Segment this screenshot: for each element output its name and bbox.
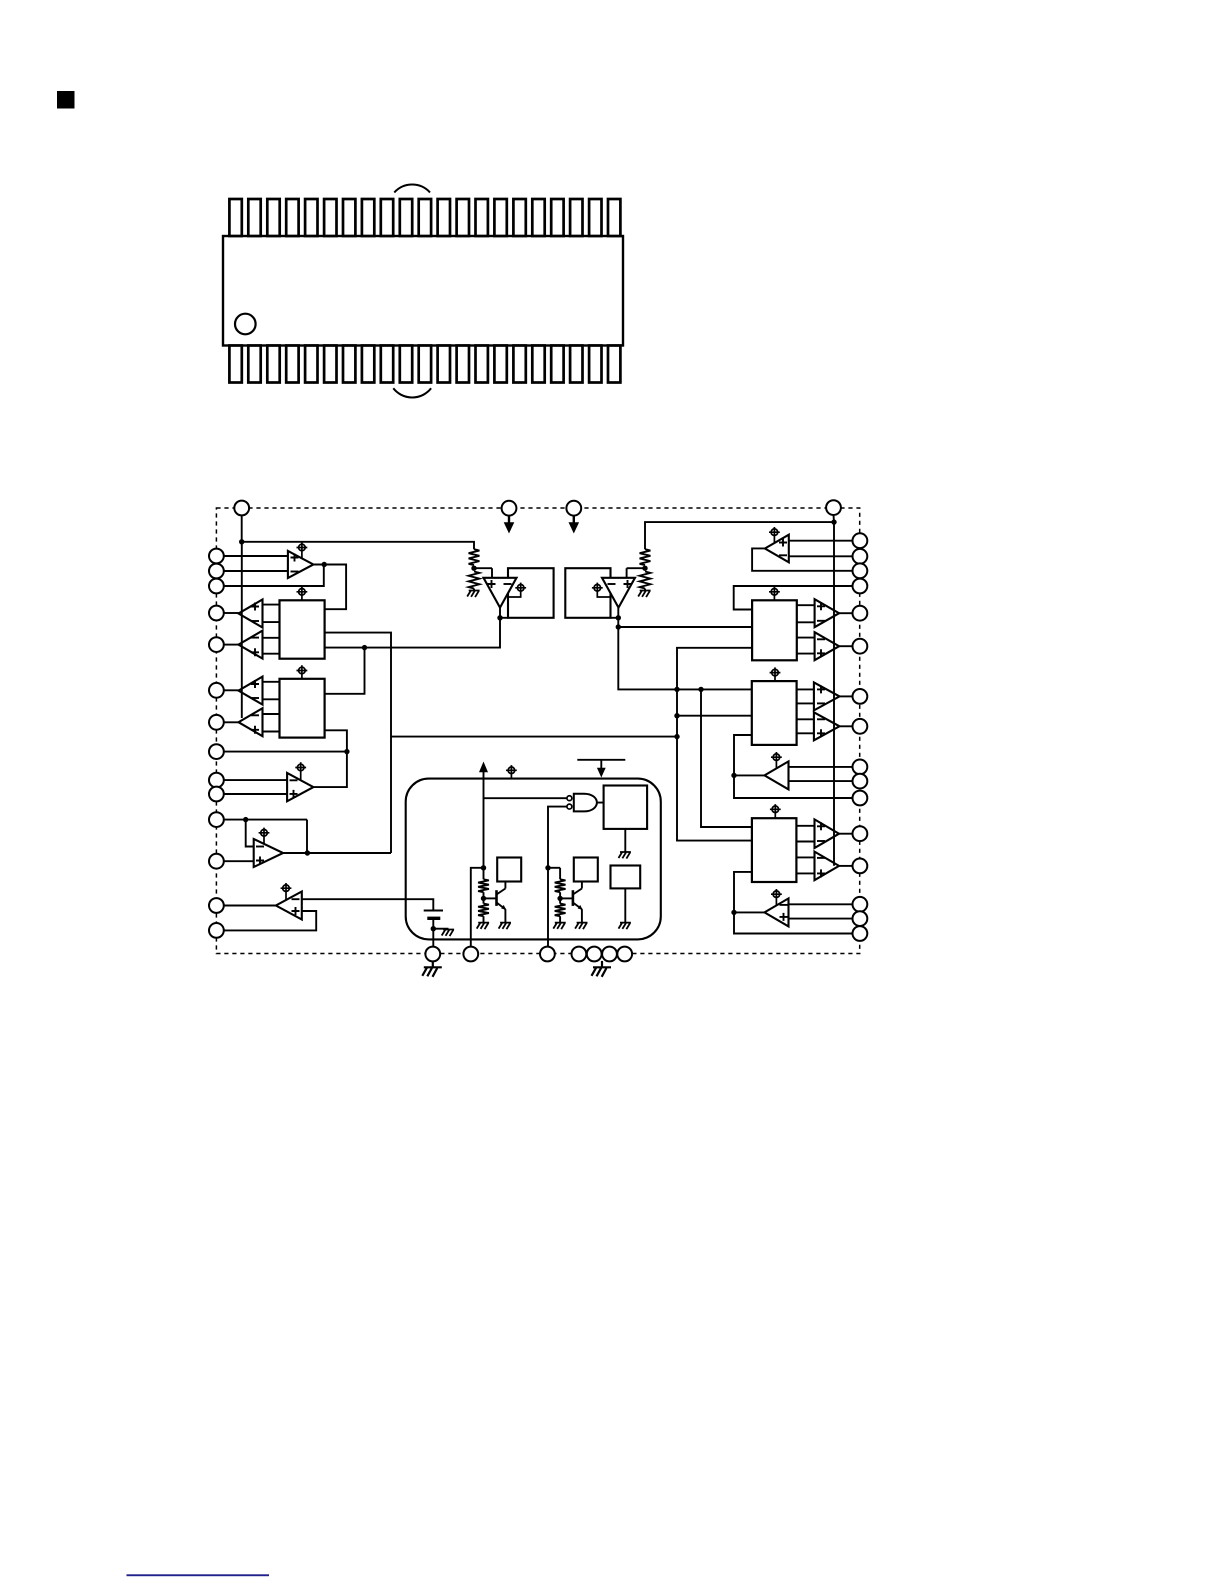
A1 polarity <box>817 602 825 610</box>
stub R2-A4 lower <box>797 732 814 734</box>
wire pin L12 to U5+ <box>224 860 254 862</box>
wire node-A cross link <box>391 736 677 738</box>
NAND input bubble 2 <box>567 804 572 809</box>
wire to left divider <box>242 542 474 549</box>
op-amp U11 (right bottom amp) <box>765 898 789 926</box>
stub U8- input <box>610 568 612 578</box>
junction L1 input <box>362 645 367 650</box>
logic block F1 <box>604 786 648 829</box>
ground D3 <box>624 888 626 922</box>
wire U7 rect tie <box>500 617 508 619</box>
junction U8 out-1 <box>616 615 621 620</box>
wire A6 output <box>839 865 853 867</box>
wire L2 to U4 output loop <box>313 730 347 787</box>
junction U5 out <box>305 850 310 855</box>
wire A5 output <box>839 833 853 835</box>
wire arrow pin V1 <box>508 516 510 524</box>
ground pin cluster <box>601 961 603 967</box>
U7 polarity <box>488 580 496 588</box>
stub R3-A5 upper <box>796 825 814 827</box>
junction node-B/737 <box>674 734 679 739</box>
wire L1 to node-A vertical <box>325 633 391 853</box>
op-amp U9 (right top amp) <box>765 535 789 563</box>
junction base Q2 <box>557 896 562 901</box>
wire pin L13 to U6 <box>224 905 276 907</box>
wire pin L6 to U3a <box>224 689 239 691</box>
resistor RB2a <box>559 868 561 880</box>
stub U3b-L2 upper <box>263 713 280 715</box>
schematic boundary (dashed) <box>216 508 859 954</box>
bias tap U4 <box>295 762 306 779</box>
block D1 <box>497 858 521 882</box>
wire node-C vertical <box>701 689 752 827</box>
stub R1-A1 upper <box>797 604 815 606</box>
block R3 <box>752 818 797 882</box>
ground RB1 <box>483 916 485 922</box>
stub U7+ input <box>491 568 493 578</box>
oscillator block (rounded) <box>406 779 661 940</box>
wire pin L5 to U2b <box>224 644 239 646</box>
wire U10 out to R2 <box>734 735 752 775</box>
wire NAND bottom input <box>548 807 567 947</box>
capacitor C1 top plate <box>424 910 443 912</box>
ground right divider <box>644 589 646 591</box>
comparator U2b <box>239 631 263 659</box>
wire U10 output <box>734 774 765 776</box>
op-amp U7 (center-left amp) <box>484 578 517 608</box>
bias tap R2 <box>770 667 781 681</box>
arrowhead V2 <box>569 522 580 533</box>
junction osc chain 2 <box>545 865 550 870</box>
bias tap L1 <box>297 587 308 601</box>
bias tap R3 <box>770 804 781 818</box>
wire U6+ to pin L14 <box>224 911 316 930</box>
U2a polarity <box>251 603 259 611</box>
junction U1 output <box>322 562 327 567</box>
wire U5 feedback left <box>246 820 254 847</box>
frame U8 <box>565 568 610 618</box>
bias tap U11 <box>771 889 782 905</box>
pin V1 (top) <box>502 501 517 516</box>
section marker square <box>57 91 75 109</box>
op-amp U8 (center-right amp) <box>602 578 635 608</box>
wire Q2 collector <box>581 882 583 889</box>
wire top-left pin stem <box>241 515 243 541</box>
ground Q2 emitter <box>581 909 583 922</box>
wire pin L11 <box>224 819 307 821</box>
IC package body <box>223 236 623 346</box>
stub U2b-L1 lower <box>263 653 280 655</box>
A6 polarity <box>817 857 825 859</box>
comparator U3a <box>239 677 263 705</box>
junction top-right <box>831 519 836 524</box>
ground left divider <box>473 589 475 591</box>
transistor Q1 <box>484 897 497 899</box>
wire to right divider <box>645 522 834 549</box>
enable up-arrow <box>483 772 485 868</box>
stub R2-A3 lower <box>797 702 814 704</box>
wire U6- to cap <box>302 899 434 910</box>
block L1 <box>280 600 325 658</box>
inhibit bar <box>577 759 625 761</box>
stub R3-A5 lower <box>796 841 814 843</box>
wire cap ground branch <box>433 928 448 930</box>
stub U3b-L2 lower <box>263 731 280 733</box>
stub U2b-L1 upper <box>263 637 280 639</box>
junction left divider <box>471 566 476 571</box>
wire right top pin stem <box>833 515 836 522</box>
U2b polarity <box>251 637 259 639</box>
bias tap osc <box>506 765 517 779</box>
arrowhead V1 <box>504 522 515 533</box>
resistor RB1b <box>483 898 485 903</box>
IC bottom pin row (pins 1-21) <box>229 346 620 383</box>
wire NAND output <box>597 802 604 804</box>
wire pin R2 to U9- <box>789 555 853 557</box>
A4 polarity <box>817 718 825 720</box>
op-amp U5 (left lower amp) <box>254 839 283 867</box>
IC bottom notch arc <box>393 388 431 397</box>
wire U8 out to R1 <box>618 626 752 628</box>
bias tap U8 <box>597 591 609 597</box>
wire node-B to R2 <box>677 715 752 717</box>
wire U1 output <box>313 565 346 610</box>
junction U8 out-2 <box>616 624 621 629</box>
inhibit down-arrow <box>600 760 602 769</box>
bias tap U1 <box>297 542 308 558</box>
wire pin R15 to U11+ <box>789 918 853 920</box>
NAND gate G1 <box>574 794 597 812</box>
wire pin R10 to U10+ <box>789 780 853 782</box>
bias tap U6 <box>281 883 292 900</box>
stub U2a-L1 lower <box>263 621 280 623</box>
A2 polarity <box>817 638 825 640</box>
capacitor C1 bottom plate <box>427 917 440 920</box>
bias tap U9 <box>769 527 780 543</box>
block D2 <box>574 858 598 882</box>
driver A5 (R3 upper) <box>815 819 840 848</box>
junction node-B/689 <box>674 687 679 692</box>
bias tap U5 <box>259 828 270 844</box>
stub R3-A6 lower <box>796 872 814 874</box>
wire pin R1 to U9+ <box>789 540 853 542</box>
wire cap to pin B1 <box>432 918 434 946</box>
wire pin L7 to U3b <box>224 721 239 723</box>
wire U7 output to L1 <box>325 608 500 648</box>
stub R3-A6 upper <box>796 856 814 858</box>
stub R1-A2 lower <box>797 653 815 655</box>
U4 polarity <box>290 779 298 781</box>
wire U11 output <box>734 911 765 913</box>
op-amp U10 (right mid amp) <box>765 761 789 789</box>
junction right divider <box>642 566 647 571</box>
stub U3a-L2 upper <box>263 681 280 683</box>
wire U5 feedback right <box>306 820 308 853</box>
junction pin L11 <box>243 817 248 822</box>
wire arrow pin V2 <box>573 516 575 524</box>
U8 polarity <box>608 583 616 585</box>
U6 polarity <box>292 898 300 900</box>
wire NAND top input <box>484 797 567 799</box>
wire U8 rect tie <box>611 617 619 619</box>
pin top-right <box>826 500 841 515</box>
pin top-left <box>234 501 249 516</box>
stub R2-A4 upper <box>797 718 814 720</box>
block D3 <box>611 866 641 889</box>
resistor RB1a <box>483 868 485 880</box>
block R2 <box>752 681 797 745</box>
stub U7- input <box>507 568 509 578</box>
wire pin R4 to R1 input <box>734 586 853 610</box>
NAND input bubble 1 <box>567 796 572 801</box>
wire divider to U7+ <box>474 567 492 569</box>
driver A2 (R1 lower) <box>815 632 840 660</box>
transistor Q2 <box>560 897 573 899</box>
stub R2-A3 upper <box>797 688 814 690</box>
driver A4 (R2 lower) <box>814 712 840 740</box>
junction node-C <box>698 687 703 692</box>
junction U7 out <box>497 615 502 620</box>
op-amp U1 (left input amp) <box>288 551 314 578</box>
wire U5 output <box>283 852 391 854</box>
op-amp U6 (left bottom amp) <box>276 892 302 920</box>
wire pin L3 feedback <box>224 565 324 587</box>
bias tap L2 <box>297 665 308 679</box>
resistor R-left-1 <box>469 549 480 565</box>
bottom pin row (pins B1-B7) <box>425 947 440 962</box>
wire Q1 collector <box>504 882 506 889</box>
A5 polarity <box>817 822 825 830</box>
bias tap U7 <box>509 591 521 597</box>
wire A2 output <box>839 645 852 647</box>
junction node-B/716 <box>674 713 679 718</box>
U9 polarity <box>779 539 787 547</box>
wire pin R14 to U11- <box>789 903 853 905</box>
footer rule (navy) <box>127 1574 270 1576</box>
IC pin-1 marker circle <box>235 314 256 335</box>
stub U3a-L2 lower <box>263 698 280 700</box>
wire main left vertical <box>241 542 243 718</box>
wire pin L10 to U4+ <box>224 793 287 795</box>
wire pin L2 to U1- <box>224 570 288 572</box>
junction pin L8 <box>344 749 349 754</box>
wire pin L8 <box>224 751 347 753</box>
resistor R-right-1 <box>640 549 651 565</box>
wire pin L4 to U2a <box>224 612 239 614</box>
IC top notch arc <box>394 185 430 193</box>
ground Q1 emitter <box>504 909 506 922</box>
resistor R-right-2 <box>640 572 651 589</box>
junction U10 out <box>731 773 736 778</box>
U3a polarity <box>251 680 259 688</box>
stub R1-A2 upper <box>797 637 815 639</box>
wire node to L2 input <box>325 648 365 694</box>
bias tap R1 <box>769 587 780 601</box>
ground pin B1 <box>432 961 434 967</box>
wire U10 out to pin R11 <box>734 775 853 798</box>
block R1 <box>752 600 797 660</box>
U11 polarity <box>780 904 788 906</box>
IC top pin row (pins 42-22) <box>229 199 620 236</box>
wire bottom pin 2 riser <box>471 868 484 947</box>
block L2 <box>280 679 325 738</box>
bias tap U10 <box>771 752 782 768</box>
wire A3 output <box>840 695 853 697</box>
frame U7 <box>508 568 554 618</box>
driver A1 (R1 upper) <box>815 599 840 627</box>
junction osc chain 1 <box>481 865 486 870</box>
wire main right vertical <box>833 522 835 866</box>
resistor RB2b <box>559 898 561 903</box>
driver A3 (R2 upper) <box>814 682 840 710</box>
U5 polarity <box>256 846 264 848</box>
stub R1-A1 lower <box>797 621 815 623</box>
wire A1 output <box>839 612 852 614</box>
wire chain2 link <box>548 867 560 869</box>
driver A6 (R3 lower) <box>815 852 840 881</box>
wire R3 to U11 output net <box>734 872 853 934</box>
U1 polarity <box>291 554 299 562</box>
junction U11 out <box>731 910 736 915</box>
wire node-B vertical <box>677 648 752 841</box>
wire U9 feedback <box>752 548 852 570</box>
junction top-left <box>239 539 244 544</box>
resistor R-left-2 <box>469 572 480 589</box>
wire A4 output <box>840 725 853 727</box>
right pin column (pins R1-R16) <box>853 533 868 548</box>
junction cap ground <box>431 926 436 931</box>
ground RB2 <box>559 916 561 922</box>
U3b polarity <box>251 714 259 716</box>
stub U8+ input <box>626 568 628 578</box>
wire pin L9 to U4- <box>224 779 287 781</box>
pin V2 (top) <box>566 501 581 516</box>
wire pin L1 to U1+ <box>224 555 288 557</box>
op-amp U4 (left mid amp) <box>287 773 313 801</box>
left pin column (pins L1-L14) <box>209 549 224 564</box>
stub U2a-L1 upper <box>263 604 280 606</box>
comparator U3b <box>239 708 263 736</box>
wire pin R9 to U10- <box>789 766 853 768</box>
wire divider to U8+ <box>627 567 645 569</box>
ground F1 <box>624 829 626 852</box>
A3 polarity <box>817 685 825 693</box>
comparator U2a <box>239 600 263 628</box>
junction base Q1 <box>481 896 486 901</box>
wire U8 output chain <box>618 608 752 690</box>
